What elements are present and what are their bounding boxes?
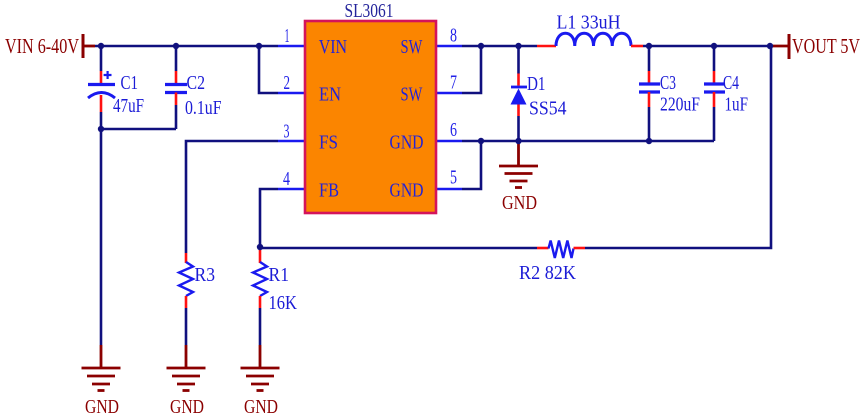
svg-text:GND: GND [390, 180, 424, 202]
svg-text:0.1uF: 0.1uF [185, 97, 222, 119]
junction dot gnd rail C3 [646, 138, 652, 144]
svg-text:FB: FB [319, 180, 339, 202]
wire rail to VOUT riser [585, 46, 771, 248]
svg-text:6: 6 [450, 119, 457, 141]
svg-text:1uF: 1uF [725, 94, 749, 116]
svg-text:GND: GND [85, 396, 119, 418]
svg-text:SW: SW [401, 84, 423, 106]
svg-text:VIN 6-40V: VIN 6-40V [5, 34, 79, 58]
terminal VIN [82, 34, 85, 58]
svg-text:L1 33uH: L1 33uH [557, 12, 621, 34]
svg-text:GND: GND [502, 192, 537, 214]
junction dot VOUT rail C3 [646, 43, 652, 49]
resistor R2 [537, 247, 549, 250]
svg-text:2: 2 [284, 72, 291, 94]
svg-text:47uF: 47uF [113, 95, 144, 117]
junction dot gnd rail diode [515, 138, 521, 144]
pin stub 5 [436, 188, 462, 191]
wire pin5 riser [462, 141, 481, 189]
pin stub 3 [278, 140, 305, 143]
svg-text:16K: 16K [269, 292, 298, 314]
capacitor C4 [713, 46, 716, 71]
junction dot top rail C2 [173, 43, 179, 49]
junction dot top rail C1 [98, 43, 104, 49]
svg-text:EN: EN [319, 84, 341, 106]
svg-text:VOUT 5V: VOUT 5V [792, 34, 860, 58]
svg-text:1: 1 [285, 25, 290, 47]
wire C1-C2 bottom rail [101, 128, 176, 131]
svg-text:7: 7 [450, 72, 457, 94]
junction dot SW rail pin7 [478, 43, 484, 49]
pin stub 6 [436, 140, 462, 143]
svg-text:C3: C3 [660, 72, 676, 94]
svg-text:GND: GND [244, 396, 278, 418]
capacitor C2 [175, 46, 178, 71]
svg-text:C4: C4 [723, 72, 739, 94]
pin stub 7 [436, 92, 462, 95]
svg-text:GND: GND [170, 396, 204, 418]
svg-text:220uF: 220uF [660, 94, 700, 116]
ground R3 branch [185, 345, 188, 368]
svg-text:R2 82K: R2 82K [519, 262, 576, 284]
junction dot top rail EN riser [256, 43, 262, 49]
junction dot feedback rail R1 [257, 244, 263, 250]
junction dot gnd rail pin5 [478, 138, 484, 144]
wire inductor to VOUT [643, 45, 770, 48]
wire top rail VIN to IC pin1 [95, 45, 278, 48]
wire pin7 riser [462, 46, 481, 93]
capacitor C3 [648, 46, 651, 71]
junction dot C1-C2 bottom [98, 126, 104, 132]
junction dot VOUT rail C4 [711, 43, 717, 49]
junction dot SW rail diode [515, 43, 521, 49]
svg-text:5: 5 [450, 167, 457, 189]
svg-text:SS54: SS54 [529, 98, 567, 120]
ground left (C1 branch) [100, 345, 103, 368]
svg-text:R1: R1 [269, 264, 290, 286]
wire FB to junction [260, 189, 278, 247]
pin stub 2 [278, 92, 305, 95]
svg-text:VIN: VIN [319, 36, 347, 58]
junction dot VOUT rail riser [767, 43, 773, 49]
pin stub 8 [436, 45, 462, 48]
capacitor C1 [100, 46, 103, 71]
resistor R1 [259, 247, 262, 263]
svg-text:FS: FS [319, 132, 338, 154]
pin stub 1 [278, 45, 305, 48]
wire FS to R3 [186, 141, 278, 253]
wire pin8 to inductor [462, 45, 537, 48]
svg-text:SL3061: SL3061 [345, 0, 394, 22]
svg-text:SW: SW [401, 36, 423, 58]
ground under diode [517, 141, 520, 166]
IC U1 SL3061 [305, 21, 436, 213]
ground R1 branch [259, 345, 262, 368]
svg-text:4: 4 [283, 168, 290, 190]
diode D1 [517, 46, 520, 74]
svg-text:C1: C1 [121, 72, 139, 94]
svg-text:D1: D1 [527, 73, 546, 95]
svg-text:GND: GND [390, 132, 424, 154]
terminal VOUT [770, 45, 789, 48]
wire feedback rail [260, 247, 537, 250]
pin stub 4 [278, 188, 305, 191]
svg-text:3: 3 [284, 121, 290, 143]
svg-text:8: 8 [450, 25, 457, 47]
resistor R3 [185, 253, 188, 263]
wire EN riser from top rail to pin2 [259, 46, 278, 93]
svg-text:R3: R3 [195, 264, 216, 286]
svg-text:C2: C2 [187, 72, 206, 94]
inductor L1 [537, 45, 556, 48]
wire pin6 gnd rail [462, 140, 714, 143]
